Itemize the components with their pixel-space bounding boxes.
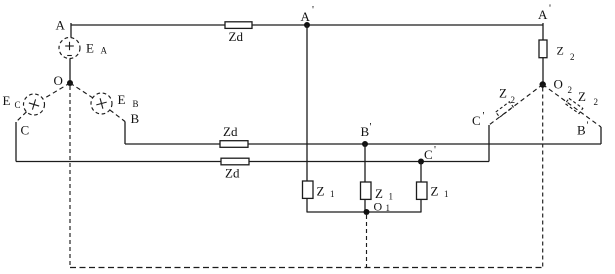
node O1 xyxy=(364,209,370,215)
wire: A' right corner down to Z2 xyxy=(542,23,544,40)
resistor body Z2 (dashed, rotated) on O2-B' branch xyxy=(565,98,583,113)
wire: phase C from Zd to right riser xyxy=(249,161,489,163)
svg-text:E: E xyxy=(3,93,11,108)
svg-text:A: A xyxy=(56,18,66,33)
svg-text:1: 1 xyxy=(389,192,394,202)
wire: drop from A corner to source EA xyxy=(70,23,72,38)
wire: phase B from Zd to right riser xyxy=(248,143,601,145)
svg-text:2: 2 xyxy=(511,95,516,105)
svg-text:C: C xyxy=(424,147,433,162)
svg-text:Zd: Zd xyxy=(229,29,244,44)
svg-text:C: C xyxy=(472,113,481,128)
svg-text:1: 1 xyxy=(444,189,449,199)
svg-text:Z: Z xyxy=(431,184,439,199)
node B' (junction on phase B) xyxy=(362,141,368,147)
svg-text:Z: Z xyxy=(317,184,325,199)
svg-text:A: A xyxy=(538,7,548,22)
wire: dashed neutral from O down xyxy=(69,86,71,268)
svg-text:Z: Z xyxy=(557,44,564,58)
wire: phase A top from A corner to Zd box xyxy=(71,24,225,26)
svg-text:': ' xyxy=(549,3,551,15)
svg-text:2: 2 xyxy=(568,85,573,95)
wire: dashed diagonal EB to B corner xyxy=(110,110,125,122)
svg-text:C: C xyxy=(21,123,30,138)
svg-text:Z: Z xyxy=(499,86,507,101)
wire: Z1 to neutral bar xyxy=(364,199,366,212)
wire: dashed diagonal O to EB xyxy=(70,83,93,98)
svg-text:': ' xyxy=(434,144,436,156)
node A' (junction on phase A) xyxy=(304,22,310,28)
svg-text:O: O xyxy=(554,77,563,92)
svg-text:E: E xyxy=(86,41,94,56)
wire: dashed diagonal EC to C corner xyxy=(16,112,27,122)
svg-text:1: 1 xyxy=(330,189,335,199)
impedance Z2 dashed diagonal O2 to C' xyxy=(489,85,543,126)
wire: Z1 to neutral bar xyxy=(420,199,422,212)
svg-text:': ' xyxy=(312,4,314,16)
wire: dashed neutral bottom bus xyxy=(70,267,543,269)
svg-text:Z: Z xyxy=(578,89,586,104)
wire: Z1 to neutral bar xyxy=(306,198,308,212)
wire: phase B horizontal to Zd xyxy=(125,143,220,145)
source EA (dashed circle, + -) xyxy=(59,38,80,59)
wire: neutral bar of load 1 xyxy=(307,211,422,213)
impedance Z2 dashed diagonal O2 to B' xyxy=(543,85,601,128)
svg-text:A: A xyxy=(301,9,311,24)
svg-text:B: B xyxy=(361,124,370,139)
svg-text:B: B xyxy=(577,123,586,138)
svg-text:A: A xyxy=(101,46,108,56)
wire: right riser to B' of load 2 xyxy=(600,127,602,144)
svg-text:2: 2 xyxy=(594,97,599,107)
source EB (dashed circle with x) xyxy=(91,93,112,114)
wire: B corner down xyxy=(124,122,126,145)
resistor Zd (line impedance, phase C) xyxy=(221,158,249,165)
resistor body Z2 (dashed, rotated) on O2-C' branch xyxy=(496,102,513,117)
svg-text:B: B xyxy=(131,111,140,126)
svg-text:O: O xyxy=(54,73,63,88)
svg-text:': ' xyxy=(483,110,485,122)
wire: right riser to C' of load 2 xyxy=(488,125,490,162)
wire: dashed diagonal O to EC xyxy=(43,83,70,99)
wire: B' down to Z1 xyxy=(364,144,366,182)
wire: Z2 down to node O2 xyxy=(542,58,544,85)
svg-text:B: B xyxy=(133,99,139,109)
svg-text:E: E xyxy=(118,92,126,107)
svg-text:': ' xyxy=(587,120,589,132)
node C' (junction on phase C) xyxy=(418,159,424,165)
resistor Zd (line impedance, phase A) xyxy=(225,22,252,29)
wire: phase C horizontal to Zd xyxy=(16,161,221,163)
svg-text:2: 2 xyxy=(570,52,575,62)
svg-text:O: O xyxy=(374,200,383,214)
wire: dashed neutral from O2 down xyxy=(542,88,544,268)
wire: EA to node O xyxy=(69,59,71,84)
resistor Z1 (phase A load 1) xyxy=(303,181,314,198)
wire: phase A top from Zd to A' right corner xyxy=(252,24,543,26)
wire: dashed neutral from O1 down xyxy=(366,215,368,268)
svg-text:Zd: Zd xyxy=(225,166,240,181)
resistor Z1 (phase B load 1) xyxy=(361,182,372,199)
svg-text:1: 1 xyxy=(386,203,391,213)
node O xyxy=(67,80,73,86)
wire: C corner down xyxy=(15,122,17,162)
source EC (dashed circle with x) xyxy=(24,94,45,115)
wire: A' down to Z1 xyxy=(306,25,308,181)
resistor Zd (line impedance, phase B) xyxy=(220,141,248,148)
svg-text:': ' xyxy=(370,121,372,133)
node O2 xyxy=(540,81,546,87)
svg-text:C: C xyxy=(15,100,21,110)
resistor Z2 (phase A load 2) xyxy=(539,40,547,58)
svg-text:Zd: Zd xyxy=(223,124,238,139)
resistor Z1 (phase C load 1) xyxy=(417,182,428,199)
wire: C' down to Z1 xyxy=(420,162,422,183)
